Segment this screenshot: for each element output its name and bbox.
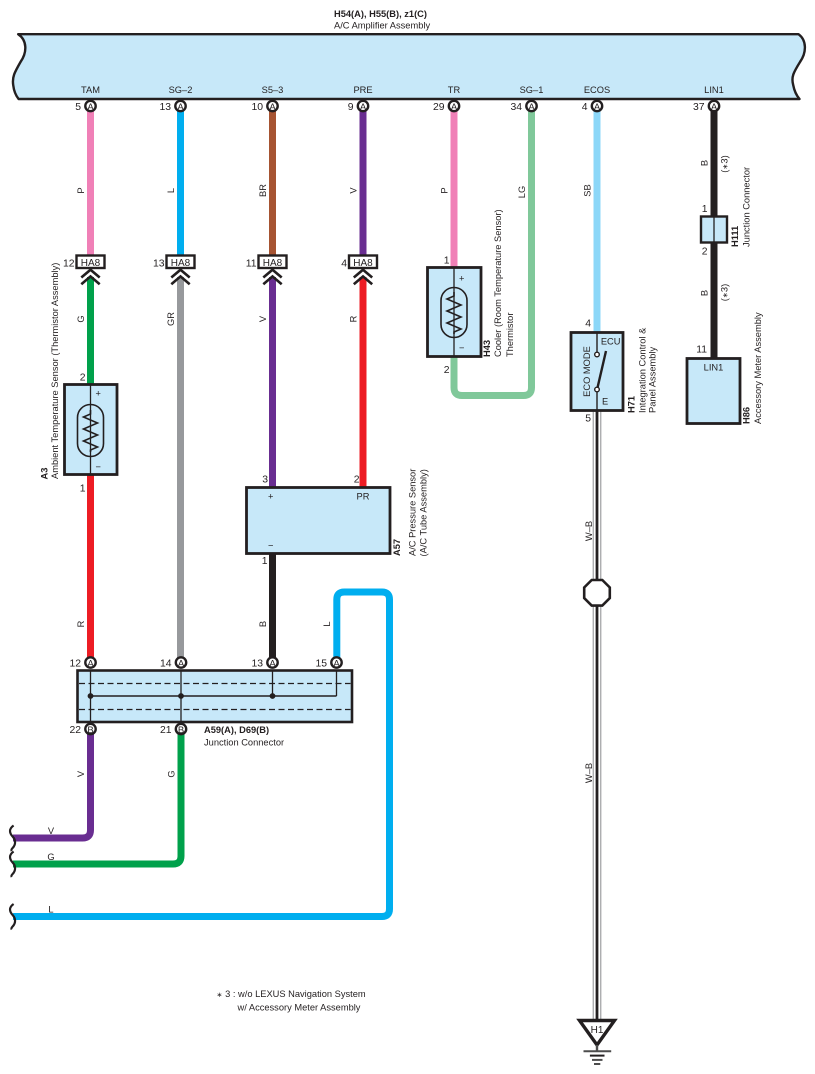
svg-text:LG: LG xyxy=(517,186,527,198)
connector A59/D69 Junction Connector xyxy=(78,671,353,723)
svg-text:11: 11 xyxy=(246,259,257,270)
connector HA8 pin4 xyxy=(349,256,377,269)
svg-text:(∗3): (∗3) xyxy=(720,155,730,172)
pin 21 B xyxy=(176,724,186,734)
component H43 Cooler Thermistor xyxy=(428,209,516,376)
svg-text:SB: SB xyxy=(583,184,593,196)
svg-text:4: 4 xyxy=(341,259,347,270)
pin 37 A LIN1 xyxy=(709,101,719,111)
svg-text:37: 37 xyxy=(693,102,705,113)
svg-text:H54(A), H55(B), z1(C): H54(A), H55(B), z1(C) xyxy=(334,9,427,19)
svg-text:A: A xyxy=(711,102,718,113)
svg-text:∗ 3 : w/o LEXUS Navigation Sys: ∗ 3 : w/o LEXUS Navigation System xyxy=(217,989,366,999)
svg-text:G: G xyxy=(76,315,86,322)
connector H111 Junction Connector xyxy=(701,167,752,258)
wire V junction 22B to left edge xyxy=(13,731,91,838)
svg-text:H43: H43 xyxy=(482,340,492,357)
svg-text:A/C Amplifier Assembly: A/C Amplifier Assembly xyxy=(334,21,430,31)
svg-text:A57: A57 xyxy=(392,539,402,556)
svg-text:−: − xyxy=(459,343,464,353)
svg-text:Thermistor: Thermistor xyxy=(505,313,515,357)
svg-text:22: 22 xyxy=(69,725,81,736)
svg-text:34: 34 xyxy=(510,102,522,113)
svg-text:A: A xyxy=(333,658,340,669)
svg-text:ECO MODE: ECO MODE xyxy=(582,346,592,397)
svg-text:LIN1: LIN1 xyxy=(704,363,724,373)
pin 4 A ECOS xyxy=(592,101,602,111)
svg-text:w/ Accessory Meter Assembly: w/ Accessory Meter Assembly xyxy=(237,1003,361,1013)
svg-text:−: − xyxy=(96,462,101,472)
svg-text:TR: TR xyxy=(448,85,461,95)
svg-text:21: 21 xyxy=(160,725,172,736)
svg-text:H111: H111 xyxy=(730,226,740,247)
pin 9 A PRE xyxy=(358,101,368,111)
svg-text:Ambient Temperature Sensor (Th: Ambient Temperature Sensor (Thermistor A… xyxy=(50,263,60,479)
svg-text:B: B xyxy=(258,621,268,627)
svg-text:HA8: HA8 xyxy=(81,258,101,269)
pin 34 A SG-1 xyxy=(526,101,536,111)
wire P TR pin29 to H43 pin1 xyxy=(451,109,458,268)
svg-text:HA8: HA8 xyxy=(171,258,191,269)
wires layer xyxy=(13,109,714,1020)
svg-text:P: P xyxy=(76,187,86,193)
svg-text:L: L xyxy=(166,188,176,193)
svg-text:V: V xyxy=(258,315,268,322)
internal bus xyxy=(91,695,337,697)
svg-text:W–B: W–B xyxy=(584,521,594,541)
wire R HA8 to A57 pin2 xyxy=(360,277,367,489)
svg-text:Panel Assembly: Panel Assembly xyxy=(648,347,658,413)
pin 13 A SG-2 xyxy=(175,101,185,111)
svg-text:L: L xyxy=(48,905,53,915)
svg-text:15: 15 xyxy=(315,659,327,670)
svg-text:SG–2: SG–2 xyxy=(169,85,193,95)
svg-text:B: B xyxy=(700,160,710,166)
svg-text:A59(A), D69(B): A59(A), D69(B) xyxy=(204,725,269,735)
svg-text:29: 29 xyxy=(433,102,445,113)
A/C Amplifier Assembly banner xyxy=(13,34,805,99)
svg-text:12: 12 xyxy=(69,659,81,670)
component H86 Accessory Meter Assembly xyxy=(687,312,763,424)
wire W-B octagon to ground H1 xyxy=(593,605,601,1021)
svg-text:1: 1 xyxy=(444,256,450,267)
wire G junction 21B to left edge xyxy=(13,731,181,864)
svg-text:Accessory Meter Assembly: Accessory Meter Assembly xyxy=(753,312,763,424)
svg-text:G: G xyxy=(167,770,177,777)
component A3 Ambient Temperature Sensor xyxy=(39,263,117,495)
svg-text:Junction Connector: Junction Connector xyxy=(204,738,284,748)
wire V PRE pin9 to HA8 xyxy=(360,109,367,256)
wire W-B H71 pin5 to octagon xyxy=(593,410,601,581)
svg-text:A/C Pressure Sensor: A/C Pressure Sensor xyxy=(408,469,418,556)
svg-text:Cooler (Room Temperature Senso: Cooler (Room Temperature Sensor) xyxy=(493,209,503,357)
svg-text:B: B xyxy=(700,290,710,296)
svg-text:Integration Control &: Integration Control & xyxy=(638,327,648,413)
pin 13 A xyxy=(267,657,277,667)
svg-text:+: + xyxy=(96,389,101,399)
svg-text:5: 5 xyxy=(585,414,591,425)
svg-text:A: A xyxy=(528,102,535,113)
wire L junction 15A loop to left edge xyxy=(13,592,390,917)
component H71 ECO MODE switch xyxy=(571,319,658,425)
left edge break squiggles xyxy=(10,826,15,930)
svg-text:B: B xyxy=(87,725,93,736)
svg-text:(A/C Tube Assembly): (A/C Tube Assembly) xyxy=(419,469,429,556)
component A57 A/C Pressure Sensor xyxy=(247,469,429,567)
svg-text:V: V xyxy=(76,770,86,777)
pin 15 A xyxy=(331,657,341,667)
svg-text:2: 2 xyxy=(354,474,360,485)
thermistor symbol H43 xyxy=(441,288,467,338)
svg-text:H71: H71 xyxy=(627,396,637,413)
svg-text:V: V xyxy=(349,187,359,194)
wire B LIN1 pin37 to H111 pin1 xyxy=(711,109,718,218)
junction top pin circles xyxy=(85,657,341,734)
wire P TAM pin5 to HA8 xyxy=(87,109,94,256)
svg-text:R: R xyxy=(349,315,359,322)
svg-text:4: 4 xyxy=(585,319,591,330)
svg-text:H1: H1 xyxy=(591,1025,604,1036)
svg-text:ECOS: ECOS xyxy=(584,85,610,95)
svg-text:TAM: TAM xyxy=(81,85,100,95)
pin 14 A xyxy=(176,657,186,667)
svg-text:1: 1 xyxy=(702,204,708,215)
pin 10 A S5-3 xyxy=(267,101,277,111)
svg-text:A: A xyxy=(87,102,94,113)
svg-text:2: 2 xyxy=(80,373,86,384)
svg-text:A: A xyxy=(177,102,184,113)
svg-text:BR: BR xyxy=(258,184,268,197)
svg-text:ECU: ECU xyxy=(601,336,621,346)
wire BR S5-3 pin10 to HA8 xyxy=(269,109,276,256)
svg-text:13: 13 xyxy=(251,659,263,670)
svg-text:A: A xyxy=(269,102,276,113)
pin 29 A TR xyxy=(449,101,459,111)
svg-text:2: 2 xyxy=(702,247,708,258)
squiggle V xyxy=(10,826,15,852)
svg-text:2: 2 xyxy=(444,365,450,376)
svg-text:GR: GR xyxy=(166,312,176,326)
wire R A3 pin1 to junction 12A xyxy=(87,473,94,659)
wire LG SG-1 pin34 to H43 pin2 xyxy=(454,109,532,396)
svg-text:A: A xyxy=(360,102,367,113)
connector HA8 pin11 xyxy=(259,256,287,269)
svg-text:LIN1: LIN1 xyxy=(704,85,724,95)
svg-text:A: A xyxy=(178,658,185,669)
wire V HA8 to A57 pin3 xyxy=(269,277,276,489)
svg-text:E: E xyxy=(602,397,608,407)
wire GR HA8 to junction 14A xyxy=(177,277,184,659)
svg-text:PRE: PRE xyxy=(353,85,372,95)
svg-text:A: A xyxy=(269,658,276,669)
svg-text:P: P xyxy=(440,187,450,193)
svg-text:L: L xyxy=(322,621,332,626)
svg-text:1: 1 xyxy=(80,484,86,495)
pin 22 B xyxy=(85,724,95,734)
svg-text:12: 12 xyxy=(63,259,75,270)
svg-text:R: R xyxy=(76,620,86,627)
connector HA8 pin12 xyxy=(77,256,105,269)
svg-text:H86: H86 xyxy=(742,407,752,424)
svg-text:5: 5 xyxy=(75,102,81,113)
svg-text:10: 10 xyxy=(251,102,263,113)
octagon noise filter on W-B xyxy=(584,580,610,606)
svg-text:14: 14 xyxy=(160,659,172,670)
svg-text:W–B: W–B xyxy=(584,763,594,783)
svg-text:Junction Connector: Junction Connector xyxy=(742,167,752,247)
svg-text:V: V xyxy=(48,826,55,836)
svg-text:4: 4 xyxy=(582,102,588,113)
chevrons below HA8 pin11 xyxy=(263,270,281,285)
svg-text:HA8: HA8 xyxy=(353,258,373,269)
svg-text:+: + xyxy=(459,274,464,284)
svg-text:13: 13 xyxy=(159,102,171,113)
wire B H111 pin2 to H86 pin11 xyxy=(711,241,718,360)
chevrons below HA8 pin13 xyxy=(171,270,189,285)
ground H1 xyxy=(580,1021,615,1065)
svg-text:9: 9 xyxy=(348,102,354,113)
HA8 connector boxes xyxy=(63,256,377,285)
thermistor symbol A3 xyxy=(78,405,104,457)
squiggle L xyxy=(10,904,15,930)
svg-text:3: 3 xyxy=(262,474,268,485)
pin 12 A xyxy=(85,657,95,667)
wire SB ECOS pin4 to H71 pin4 xyxy=(594,109,601,334)
pin circles row 1 xyxy=(85,101,719,111)
svg-text:A: A xyxy=(87,658,94,669)
svg-text:A: A xyxy=(451,102,458,113)
svg-text:B: B xyxy=(178,725,184,736)
svg-text:11: 11 xyxy=(696,345,707,356)
svg-text:(∗3): (∗3) xyxy=(720,284,730,301)
pin 5 A TAM xyxy=(85,101,95,111)
svg-text:S5–3: S5–3 xyxy=(262,85,284,95)
junction dots xyxy=(88,693,94,699)
svg-text:1: 1 xyxy=(262,556,268,567)
svg-text:−: − xyxy=(268,541,273,551)
svg-text:SG–1: SG–1 xyxy=(520,85,544,95)
wire G HA8 to A3 pin2 xyxy=(87,277,94,386)
chevrons below HA8 pin4 xyxy=(354,270,372,285)
chevrons below HA8 pin12 xyxy=(81,270,99,285)
svg-text:+: + xyxy=(268,492,273,502)
squiggle G xyxy=(10,852,15,878)
svg-text:A3: A3 xyxy=(39,468,49,480)
wire B A57 pin1 to junction 13A xyxy=(269,552,276,659)
wire L SG-2 pin13 to HA8 xyxy=(177,109,184,256)
svg-text:13: 13 xyxy=(153,259,165,270)
svg-text:A: A xyxy=(594,102,601,113)
svg-text:G: G xyxy=(47,852,54,862)
svg-text:HA8: HA8 xyxy=(263,258,283,269)
svg-text:PR: PR xyxy=(357,492,370,502)
connector HA8 pin13 xyxy=(167,256,195,269)
